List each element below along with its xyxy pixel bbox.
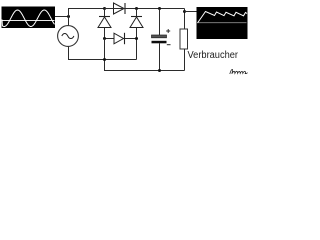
node F cap top rail: [158, 7, 161, 10]
axis line in left scope: [2, 20, 55, 22]
diode D2 (lower rail, horizontal): [114, 33, 125, 44]
plus sign: [166, 29, 170, 33]
diode D4 (right vertical, pointing up): [130, 9, 143, 60]
axis line in right scope: [198, 22, 247, 24]
oscilloscope display right (rectified output): [197, 7, 248, 39]
wire load top lead: [184, 9, 186, 30]
load resistor (Verbraucher): [180, 29, 188, 49]
ripple waveform: [198, 12, 248, 24]
svg-text:Verbraucher: Verbraucher: [188, 50, 239, 61]
minus sign: [167, 44, 171, 46]
watermark signature: [230, 69, 248, 74]
wire cap top lead: [159, 9, 161, 36]
sine wave in left scope: [2, 10, 55, 27]
diode D3 (left vertical, pointing up): [98, 9, 111, 39]
oscilloscope display left (input sine): [2, 7, 56, 29]
diode D1 (top rail, horizontal): [114, 3, 126, 14]
wire to right scope: [185, 11, 197, 13]
node A top rail left: [103, 7, 106, 10]
node D lower rail right: [135, 37, 138, 40]
AC source G1: [58, 26, 79, 47]
wire cap bottom lead: [159, 43, 161, 70]
wire AC top to rail: [69, 9, 105, 26]
node E bottom junction: [103, 58, 106, 61]
wire scope tap: [55, 16, 69, 18]
node H load/scope junction: [183, 10, 186, 13]
node G cap bottom junction: [158, 69, 161, 72]
wire top rail middle: [105, 8, 185, 10]
wire left leg down: [105, 39, 185, 71]
lower rail wire: [105, 38, 137, 40]
wire AC bottom: [69, 46, 137, 59]
node B top rail right: [135, 7, 138, 10]
capacitor C1 (polarized): [152, 29, 171, 45]
wire load bottom lead: [184, 49, 186, 71]
node scope tap junction: [67, 15, 70, 18]
node C lower rail left: [103, 37, 106, 40]
